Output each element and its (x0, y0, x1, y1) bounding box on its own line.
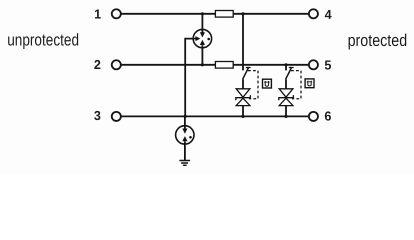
junction dot line3 / branch 2 (284, 115, 287, 118)
thermal disconnect switch S1 blade (243, 68, 249, 80)
earth ground bar 2 (181, 162, 188, 164)
F1 top arrowhead (pointing down) (200, 32, 205, 37)
resistor R1 on line 1 (215, 11, 233, 18)
junction dot line1 / GDT vertical (201, 12, 204, 15)
D2 middle zener bar (279, 95, 294, 100)
wire line 3 (bottom, terminal 3 to terminal 6) (122, 115, 309, 117)
dashed linkage box around disconnect 2 (291, 71, 301, 99)
wire diode D2 to line 3 (285, 106, 287, 117)
wire branch 2 stub (line2 to switch) (285, 65, 287, 71)
F1 left electrode arrow shaft (193, 38, 196, 40)
D2 lower triangle (279, 98, 293, 105)
junction dot line3 / branch 1 (241, 115, 244, 118)
F2 bottom arrowhead (pointing up) (182, 136, 187, 141)
switch S2 tick (289, 67, 294, 69)
junction dot line1 / branch 1 (241, 12, 244, 15)
resistor R2 on line 2 (215, 62, 233, 69)
wire switch S2 to diode D2 (285, 79, 287, 89)
svg-text:unprotected: unprotected (7, 31, 79, 50)
wire GDT1 vertical upper shaft (line1 to gap) (201, 14, 203, 33)
earth ground bar 3 (183, 164, 187, 166)
F1 left arrowhead (pointing right) (195, 36, 200, 41)
TVS suppressor diode D1 (bidirectional) upper triangle (236, 89, 250, 97)
svg-text:4: 4 (325, 7, 333, 22)
junction dot line2 / branch 2 (284, 63, 287, 66)
wire GDT2 lower shaft (gap to ground) (184, 141, 186, 160)
thermal disconnect switch S2 blade (286, 68, 292, 80)
svg-text:5: 5 (324, 57, 331, 72)
wire diode D1 to line 3 (242, 106, 244, 117)
wire line 2 (middle, terminal 2 to terminal 5) (122, 64, 309, 66)
thermal indicator square 2 (305, 79, 314, 88)
TVS suppressor diode D2 (bidirectional) upper triangle (279, 89, 293, 97)
wire line 1 (top, terminal 1 to terminal 4) (122, 13, 309, 15)
thermal indicator square 1 (263, 79, 272, 88)
F2 top arrowhead (pointing down) (182, 129, 187, 134)
D1 lower triangle (236, 98, 250, 105)
svg-text:protected: protected (348, 31, 408, 50)
terminal 1 circle (112, 9, 121, 18)
wire GDT2 upper shaft (line3 to gap) (184, 116, 186, 129)
wire switch S1 to diode D1 (242, 79, 244, 89)
terminal 4 circle (309, 9, 318, 18)
earth ground bar 1 (179, 160, 190, 162)
theta glyph in indicator square 1 (264, 81, 269, 86)
terminal 2 circle (112, 60, 121, 69)
switch S1 tick (246, 67, 251, 69)
gas discharge tube F2 (2-electrode) circle (176, 126, 194, 144)
F2 gas-filled dot (189, 136, 192, 139)
wire GDT1 vertical lower shaft (gap to line2) (201, 45, 203, 65)
dashed linkage box around disconnect 1 (248, 71, 258, 99)
terminal 5 circle (309, 60, 318, 69)
theta glyph in indicator square 2 (307, 81, 312, 86)
svg-text:6: 6 (324, 109, 331, 124)
gas discharge tube F1 (3-electrode) circle (193, 29, 211, 47)
terminal 6 circle (309, 112, 318, 121)
F1 gas-filled dot (207, 38, 210, 41)
junction dot line3 / earth lead (184, 115, 187, 118)
svg-text:2: 2 (94, 57, 101, 72)
D1 middle zener bar (236, 95, 251, 100)
svg-text:3: 3 (94, 108, 101, 123)
wire branch 1 vertical (from line1 across line2 to switch) (242, 14, 244, 71)
wire F1 center electrode lead (left then down to line 3) (185, 39, 193, 117)
junction dot line2 / GDT vertical (201, 63, 204, 66)
terminal 3 circle (112, 112, 121, 121)
F1 bottom arrowhead (pointing up) (200, 40, 205, 45)
svg-text:1: 1 (94, 7, 101, 22)
